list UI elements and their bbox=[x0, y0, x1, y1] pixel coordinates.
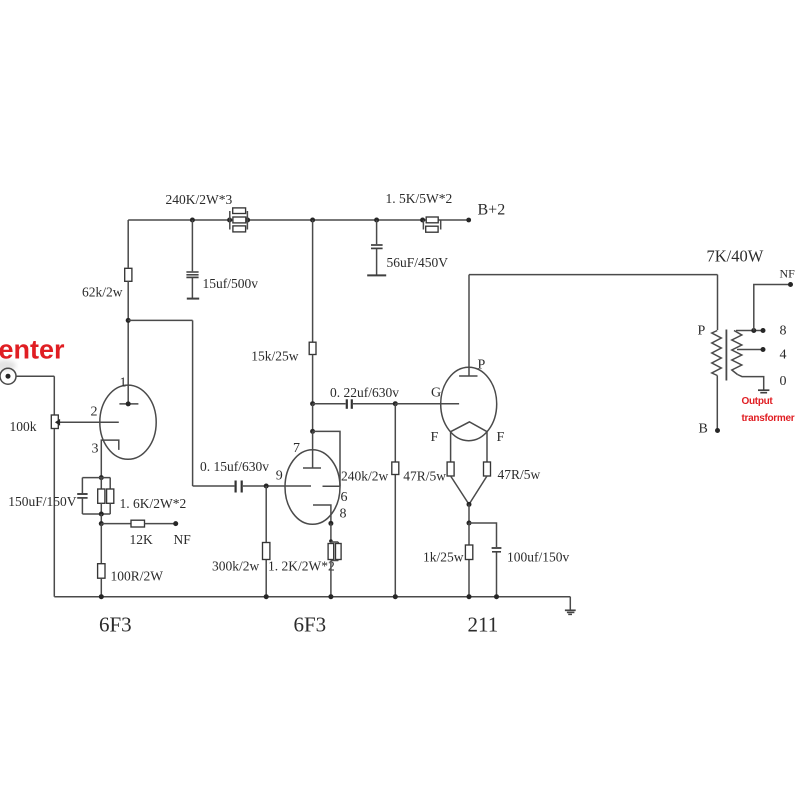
svg-text:6F3: 6F3 bbox=[99, 613, 132, 637]
ground symbol secondary bbox=[758, 390, 769, 393]
V1 cathode (pin 3) bbox=[101, 440, 119, 478]
svg-text:100R/2W: 100R/2W bbox=[111, 569, 164, 584]
wire to 100uf branch bbox=[469, 523, 497, 547]
wire junction to pin 6 bbox=[313, 431, 340, 486]
svg-text:100uf/150v: 100uf/150v bbox=[507, 550, 569, 565]
svg-text:8: 8 bbox=[340, 507, 347, 522]
wire junction to coupling drop bbox=[128, 319, 192, 321]
node rail at 56uF branch bbox=[374, 218, 379, 223]
wire V2 anode riser bbox=[312, 404, 314, 432]
svg-text:Output: Output bbox=[742, 396, 774, 407]
wire 0.22uf cap to grid node bbox=[353, 403, 395, 405]
wire jack to input drop bbox=[16, 375, 54, 377]
wire 62k branch from rail bbox=[127, 220, 129, 268]
node cathode branch bbox=[467, 521, 472, 526]
wire network bottom bar bbox=[82, 513, 110, 515]
svg-text:transformer: transformer bbox=[742, 413, 795, 424]
wire filament join right bbox=[469, 476, 487, 504]
wire 1k branch bbox=[468, 523, 470, 597]
svg-text:B+2: B+2 bbox=[478, 202, 506, 219]
terminal B bbox=[715, 428, 720, 433]
wire network top bar bbox=[82, 477, 110, 479]
wire filament left lead bbox=[450, 432, 452, 462]
svg-text:240K/2W*3: 240K/2W*3 bbox=[166, 192, 233, 207]
svg-text:56uF/450V: 56uF/450V bbox=[387, 255, 449, 270]
resistor 15k/25w bbox=[309, 342, 316, 354]
wire node to 0.22uf cap bbox=[313, 403, 346, 405]
input jack bbox=[0, 368, 16, 384]
svg-text:NF: NF bbox=[780, 267, 796, 281]
node V2 anode junction bbox=[310, 429, 315, 434]
resistor 240K/2W*3 (three in parallel) bbox=[230, 208, 248, 232]
wire 15k to 0.22uf node bbox=[312, 355, 314, 404]
resistor 12K bbox=[131, 520, 145, 527]
svg-text:P: P bbox=[478, 358, 486, 373]
wire B+2 supply rail bbox=[128, 219, 469, 221]
node anode junction bbox=[126, 318, 131, 323]
svg-text:1. 6K/2W*2: 1. 6K/2W*2 bbox=[120, 496, 187, 511]
node V1 anode bbox=[126, 401, 131, 406]
svg-text:1: 1 bbox=[120, 376, 127, 391]
svg-text:15k/25w: 15k/25w bbox=[251, 349, 299, 364]
wire 56uF branch from rail bbox=[376, 220, 378, 244]
resistor 1.6K left bbox=[98, 478, 105, 514]
transformer T1 primary winding bbox=[712, 331, 722, 376]
node rail at 1.2K bbox=[328, 594, 333, 599]
wire NF branch right segment bbox=[145, 523, 176, 525]
wire cap to V2 grid pin 9 bbox=[243, 485, 311, 487]
wire to 0.15uf cap bbox=[193, 485, 235, 487]
V2 anode pin 6 bar bbox=[323, 485, 341, 487]
node V2 cathode bbox=[328, 521, 333, 526]
wire to 100R bbox=[100, 524, 102, 564]
wire to transformer primary bbox=[717, 275, 719, 330]
node network bottom bbox=[99, 512, 104, 517]
svg-text:NF: NF bbox=[174, 532, 192, 547]
V2 cathode (pin 8) bbox=[313, 505, 331, 523]
svg-text:300k/2w: 300k/2w bbox=[212, 559, 260, 574]
terminal tap 4 bbox=[761, 347, 766, 352]
wire 240k branch bbox=[394, 404, 396, 597]
wire coupling drop vertical bbox=[192, 320, 194, 486]
wire 62k to V1 anode bbox=[127, 281, 129, 404]
capacitor 0.22uf/630v bbox=[347, 399, 352, 409]
wire filament join left bbox=[451, 476, 469, 504]
ground symbol bbox=[565, 597, 576, 615]
node grid pin 9 bbox=[264, 484, 269, 489]
potentiometer 100k bbox=[51, 415, 58, 429]
svg-text:F: F bbox=[497, 430, 505, 445]
wire filament right lead bbox=[486, 432, 488, 462]
node rail at 300k bbox=[264, 594, 269, 599]
node rail left of 240K stack bbox=[227, 218, 232, 223]
capacitor 15uf/500v bbox=[186, 272, 199, 299]
svg-text:3: 3 bbox=[92, 442, 99, 457]
svg-text:0. 15uf/630v: 0. 15uf/630v bbox=[200, 459, 269, 474]
svg-text:F: F bbox=[431, 430, 439, 445]
svg-text:B: B bbox=[699, 422, 708, 437]
node filament center bbox=[467, 502, 472, 507]
wire to cathode branch node bbox=[468, 504, 470, 523]
svg-text:100k: 100k bbox=[10, 419, 37, 434]
terminal NF output bbox=[788, 282, 793, 287]
tube V1 6F3 envelope bbox=[100, 385, 156, 459]
capacitor 56uF/450V bbox=[367, 245, 386, 275]
resistor 1k/25w bbox=[465, 545, 472, 560]
svg-text:2: 2 bbox=[91, 405, 98, 420]
svg-text:62k/2w: 62k/2w bbox=[82, 285, 123, 300]
terminal tap 8 bbox=[761, 328, 766, 333]
svg-text:7K/40W: 7K/40W bbox=[707, 247, 764, 266]
tube V3 211 envelope bbox=[441, 367, 497, 440]
svg-text:4: 4 bbox=[780, 348, 787, 363]
wire 211 plate feed horizontal bbox=[469, 274, 718, 276]
wire 211 grid bbox=[395, 403, 459, 405]
resistor 1.5K/5W*2 (two in parallel) bbox=[423, 217, 440, 232]
wire tap 4 bbox=[737, 349, 763, 351]
resistor 1.6K right bbox=[107, 478, 114, 514]
wire tap 0 bbox=[738, 375, 764, 390]
resistor 47R/5w right bbox=[484, 462, 491, 476]
wire secondary top tap bbox=[736, 330, 763, 332]
capacitor 150uF/150V bbox=[77, 478, 87, 514]
wire NF riser bbox=[754, 285, 791, 331]
svg-text:150uF/150V: 150uF/150V bbox=[8, 494, 77, 509]
V1 anode plate bar bbox=[119, 403, 138, 405]
svg-text:15uf/500v: 15uf/500v bbox=[203, 276, 259, 291]
node cathode network top bbox=[99, 475, 104, 480]
wire input drop to ground rail bbox=[53, 376, 55, 597]
node 0.22uf left bbox=[310, 401, 315, 406]
svg-text:0. 22uf/630v: 0. 22uf/630v bbox=[330, 385, 399, 400]
svg-text:P: P bbox=[698, 324, 706, 339]
resistor 1.2K/2W*2 (two in parallel) bbox=[328, 542, 341, 561]
wire 300k branch bbox=[265, 486, 267, 597]
terminal B+2 bbox=[466, 218, 471, 223]
svg-text:0: 0 bbox=[780, 374, 787, 389]
wire 100R to ground rail bbox=[100, 578, 102, 597]
node rail at 15k branch bbox=[310, 218, 315, 223]
tube V2 6F3 envelope bbox=[285, 450, 340, 525]
resistor 300k/2w bbox=[263, 543, 270, 560]
svg-text:12K: 12K bbox=[130, 532, 154, 547]
svg-text:7: 7 bbox=[293, 441, 300, 456]
svg-text:211: 211 bbox=[468, 613, 499, 637]
V3 anode plate bar bbox=[459, 375, 477, 377]
svg-text:8: 8 bbox=[780, 324, 787, 339]
input jack shadow bbox=[0, 360, 16, 371]
wire V2 plate lead (pin 7) bbox=[312, 431, 314, 468]
node rail at 240k bbox=[393, 594, 398, 599]
resistor 47R/5w left bbox=[447, 462, 454, 476]
pot wiper arrow / V1 grid wire bbox=[55, 419, 119, 426]
svg-text:G: G bbox=[431, 386, 441, 401]
wire 211 anode riser bbox=[468, 275, 470, 376]
wire cathode to NF tee bbox=[100, 514, 102, 524]
node rail at 15uf branch bbox=[190, 218, 195, 223]
node 211 grid / 240k bbox=[393, 401, 398, 406]
node rail right of 240K stack bbox=[245, 218, 250, 223]
capacitor 100uf/150v bbox=[492, 548, 502, 552]
capacitor 0.15uf/630v bbox=[236, 481, 242, 493]
transformer T1 secondary winding bbox=[732, 331, 742, 375]
resistor 62k/2w bbox=[125, 268, 132, 281]
svg-text:1. 2K/2W*2: 1. 2K/2W*2 bbox=[268, 559, 335, 574]
V3 filament bbox=[451, 422, 488, 432]
resistor 100R/2W bbox=[98, 564, 105, 579]
svg-text:9: 9 bbox=[276, 469, 283, 484]
svg-text:enter: enter bbox=[0, 335, 65, 365]
V2 plate bar bbox=[303, 467, 321, 469]
node rail at 100R bbox=[99, 594, 104, 599]
wire cathode to 1.2K pair bbox=[330, 523, 332, 542]
wire 100uf to ground rail bbox=[496, 553, 498, 597]
wire primary bottom to B bbox=[716, 376, 718, 431]
wire NF branch left segment bbox=[101, 523, 131, 525]
svg-text:1. 5K/5W*2: 1. 5K/5W*2 bbox=[386, 191, 453, 206]
svg-text:47R/5w: 47R/5w bbox=[498, 467, 541, 482]
node rail at 100uf bbox=[494, 594, 499, 599]
resistor 240k/2w bbox=[392, 462, 399, 475]
svg-text:6: 6 bbox=[341, 490, 348, 505]
wire 15k branch from rail bbox=[312, 220, 314, 342]
svg-text:47R/5w: 47R/5w bbox=[403, 468, 446, 483]
terminal NF feedback bbox=[173, 521, 178, 526]
node NF tee bbox=[99, 521, 104, 526]
svg-text:240k/2w: 240k/2w bbox=[341, 469, 389, 484]
node 1.2K top bbox=[329, 539, 333, 543]
node rail at 1k bbox=[467, 594, 472, 599]
node rail left of 1.5K stack bbox=[420, 218, 425, 223]
wire 1.2K to ground rail bbox=[330, 561, 332, 597]
svg-text:6F3: 6F3 bbox=[294, 613, 327, 637]
transformer core bbox=[725, 330, 727, 381]
svg-text:1k/25w: 1k/25w bbox=[423, 550, 464, 565]
wire 15uf branch from rail bbox=[191, 220, 193, 271]
node tap 8 inner bbox=[751, 328, 756, 333]
wire ground rail bbox=[54, 596, 570, 598]
